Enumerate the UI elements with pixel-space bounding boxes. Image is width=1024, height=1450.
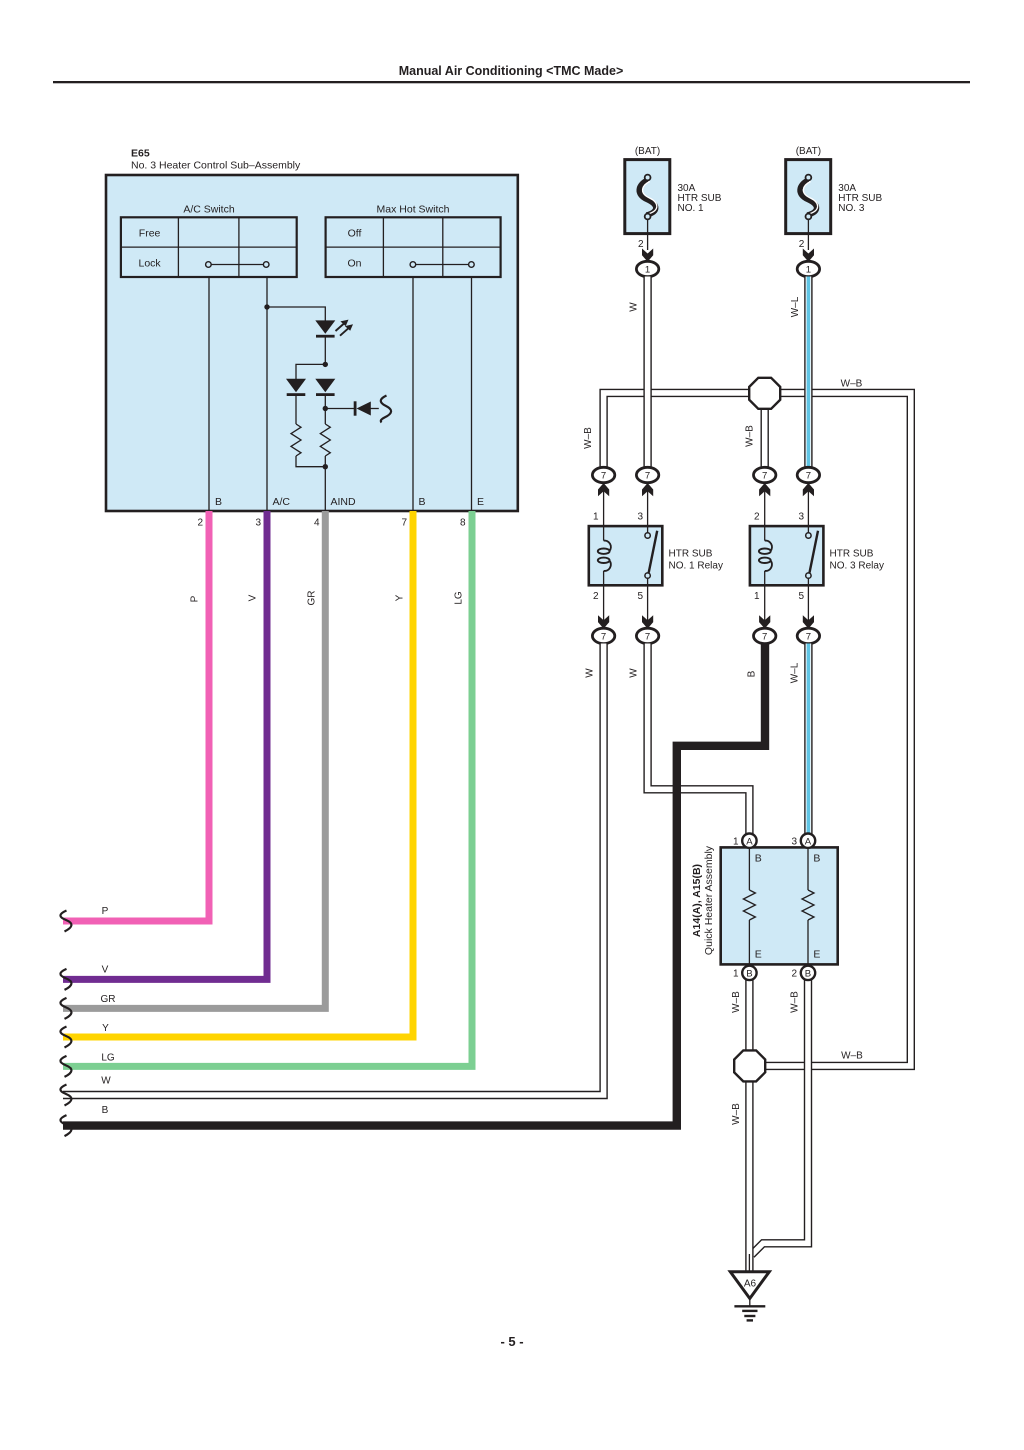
svg-text:2: 2 [638, 239, 644, 250]
svg-text:Quick Heater Assembly: Quick Heater Assembly [703, 845, 715, 955]
ground triangle A6 [730, 1272, 769, 1299]
svg-text:7: 7 [645, 471, 650, 482]
fuse 1 arrow into connector [642, 249, 653, 262]
connector oval 7 (relay1 pin1 top) [592, 467, 614, 482]
merged third wire line [748, 1254, 750, 1271]
svg-text:W–B: W–B [583, 427, 594, 449]
svg-text:1: 1 [645, 265, 650, 276]
svg-text:A14(A), A15(B): A14(A), A15(B) [691, 864, 703, 937]
svg-text:No. 3 Heater Control Sub–Assem: No. 3 Heater Control Sub–Assembly [131, 160, 301, 172]
resistor R1 [291, 424, 301, 456]
diode D4 pointing left [354, 401, 379, 415]
svg-text:1: 1 [733, 837, 739, 848]
wire P (pink) pin2 to left edge [63, 511, 209, 921]
svg-text:- 5 -: - 5 - [500, 1334, 523, 1349]
wire W relay1 pin5 to heater pin 1A [648, 644, 750, 835]
wire W-B heater pin 1B to octagon J2 [745, 980, 753, 1051]
bottom node of LED network [323, 464, 328, 469]
relay3 coil [759, 526, 772, 585]
fuse 2 arrow into connector [803, 249, 814, 262]
svg-text:2: 2 [799, 239, 805, 250]
arrow down into oval (relay1 pin2) + wire [603, 585, 605, 622]
wire from node to LED branch [267, 307, 325, 321]
wire W-B octagon J2 to ground [745, 1081, 753, 1271]
svg-text:4: 4 [314, 518, 320, 529]
svg-text:B: B [746, 969, 752, 980]
connector oval 7 (relay3 pin2 top) [754, 467, 776, 482]
E65 No.3 heater control sub-assembly box [106, 175, 518, 511]
svg-text:LG: LG [454, 591, 465, 605]
wire-break squiggle W [60, 1085, 71, 1106]
svg-text:W–B: W–B [790, 991, 801, 1013]
svg-text:E: E [755, 949, 762, 961]
connector oval 7 (relay1 pin5 bottom) [636, 628, 658, 643]
resistor R2 [320, 424, 330, 456]
diode D2 [286, 379, 306, 396]
svg-text:7: 7 [601, 632, 606, 643]
wire from A/C switch to pin 2 [208, 277, 210, 511]
svg-text:5: 5 [798, 591, 804, 602]
arrow up into oval (relay1 pin1) + wire [603, 489, 605, 526]
wire D2 to resistor R1 [295, 395, 297, 424]
relay HTR SUB NO.1 box [589, 526, 663, 585]
wire-break squiggle LG [60, 1056, 71, 1077]
fuse 2 connector oval 1 [797, 261, 819, 276]
svg-text:B: B [102, 1105, 109, 1116]
svg-text:E: E [477, 496, 484, 508]
wire from A/C switch to pin 3 [266, 277, 268, 511]
wire-break squiggle V [60, 969, 71, 990]
svg-text:W–B: W–B [745, 425, 756, 447]
quick heater assembly box [721, 847, 838, 964]
svg-text:2: 2 [593, 591, 599, 602]
title underline rule [53, 81, 970, 83]
svg-text:NO. 1: NO. 1 [678, 203, 705, 214]
heater element resistor (A14) [743, 847, 755, 964]
relay3 switch [806, 526, 818, 585]
node below LED [323, 362, 328, 367]
fuse HTR SUB NO.3 box [786, 160, 831, 234]
svg-text:A/C Switch: A/C Switch [183, 204, 235, 216]
arrow down into oval (relay3 pin1) + wire [764, 585, 766, 622]
svg-text:W: W [101, 1076, 111, 1087]
W-B wire network: left drop, top run, right drop, bottom run [604, 393, 911, 1066]
svg-text:GR: GR [101, 994, 116, 1005]
fuse 2 pin 2 wire [807, 219, 809, 250]
svg-text:Y: Y [395, 594, 406, 601]
wire from Max Hot switch to pin 8 [471, 277, 473, 511]
svg-text:A6: A6 [744, 1279, 757, 1290]
wire GR (gray) pin4 to left edge [63, 511, 325, 1008]
fuse HTR SUB NO.1 box [625, 160, 670, 234]
svg-text:7: 7 [645, 632, 650, 643]
wire W-B heater pin 2B down and merge [752, 980, 809, 1255]
wire node to pin 4 AIND [324, 456, 326, 511]
branch wire to diode D2 [296, 364, 325, 379]
wire-break squiggle P [60, 911, 71, 932]
svg-text:Y: Y [102, 1023, 109, 1034]
svg-text:Free: Free [139, 228, 161, 240]
svg-text:7: 7 [806, 632, 811, 643]
svg-text:Off: Off [348, 228, 362, 240]
svg-text:W–B: W–B [841, 1051, 863, 1062]
svg-text:2: 2 [754, 512, 760, 523]
wire-break squiggle GR [60, 998, 71, 1019]
junction octagon J1 [749, 378, 780, 409]
svg-text:3: 3 [255, 518, 261, 529]
svg-text:W–L: W–L [790, 296, 801, 317]
wire B relay3 pin1 to bottom left (thick) [63, 644, 765, 1126]
svg-text:Lock: Lock [139, 258, 162, 270]
connector oval 7 (relay1 pin3 top) [636, 467, 658, 482]
LED D1 [315, 320, 353, 338]
svg-text:A: A [805, 836, 812, 847]
svg-text:A/C: A/C [273, 496, 291, 508]
wire Y (yellow) pin7 to left edge [63, 511, 413, 1037]
W-B wire octagon to relay connector [761, 400, 769, 468]
fuse 1 connector oval 1 [636, 261, 658, 276]
diode D3 [315, 379, 335, 396]
svg-text:7: 7 [762, 632, 767, 643]
svg-text:7: 7 [401, 518, 407, 529]
A/C switch table [121, 217, 297, 277]
svg-text:3: 3 [637, 512, 643, 523]
svg-text:3: 3 [792, 837, 798, 848]
arrow up into oval (relay3 pin2) + wire [764, 489, 766, 526]
arrow down into oval (relay3 pin5) + wire [807, 585, 809, 622]
connector oval 7 (relay3 pin3 top) [797, 467, 819, 482]
connector oval 7 (relay3 pin5 bottom) [797, 628, 819, 643]
Max Hot switch on-row contact [410, 262, 474, 268]
svg-text:W–B: W–B [731, 991, 742, 1013]
svg-text:On: On [347, 258, 361, 270]
junction octagon J2 [734, 1050, 765, 1081]
relay1 switch [645, 526, 657, 585]
svg-text:P: P [102, 906, 109, 917]
node at AIND branch [323, 406, 328, 411]
svg-text:W: W [629, 668, 640, 678]
arrow up into oval (relay3 pin3) + wire [807, 489, 809, 526]
svg-text:B: B [419, 496, 426, 508]
svg-text:Manual Air Conditioning <TMC M: Manual Air Conditioning <TMC Made> [399, 64, 624, 78]
heater pin 1B circle [742, 966, 756, 980]
wire node to resistor R2 [324, 409, 326, 425]
wire R1 to bottom node [296, 456, 325, 467]
svg-text:7: 7 [762, 471, 767, 482]
svg-text:NO. 3: NO. 3 [838, 203, 865, 214]
heater element resistor (A15) [802, 847, 814, 964]
svg-text:B: B [747, 670, 758, 677]
wire V (violet) pin3 to left edge [63, 511, 267, 979]
svg-text:B: B [215, 496, 222, 508]
fuse 1 pin 2 wire [647, 219, 649, 250]
svg-text:1: 1 [754, 591, 760, 602]
svg-text:W–L: W–L [790, 662, 801, 683]
heater pin 1A circle [742, 834, 756, 848]
svg-text:7: 7 [601, 471, 606, 482]
svg-text:Max Hot Switch: Max Hot Switch [377, 204, 450, 216]
svg-text:B: B [813, 853, 820, 865]
wire-break squiggle B [60, 1115, 71, 1136]
relay1 coil [598, 526, 611, 585]
svg-text:W: W [585, 668, 596, 678]
svg-text:HTR SUB: HTR SUB [669, 549, 713, 560]
connector oval 7 (relay3 pin1 bottom) [754, 628, 776, 643]
svg-text:LG: LG [101, 1052, 115, 1063]
svg-text:NO. 3 Relay: NO. 3 Relay [830, 561, 884, 572]
ground symbol [734, 1299, 765, 1321]
wire W relay1 pin2 to bottom left [63, 644, 604, 1096]
svg-text:5: 5 [637, 591, 643, 602]
wire D3 to node [324, 395, 326, 408]
svg-text:HTR SUB: HTR SUB [830, 549, 874, 560]
svg-text:7: 7 [806, 471, 811, 482]
svg-text:2: 2 [197, 518, 203, 529]
svg-text:3: 3 [798, 512, 804, 523]
svg-text:B: B [805, 969, 811, 980]
arrow up into oval (relay1 pin3) + wire [647, 489, 649, 526]
fuse HTR SUB NO.1 element [639, 175, 657, 220]
svg-text:GR: GR [307, 591, 318, 606]
wire LG (light green) pin8 to left edge [63, 511, 472, 1066]
svg-text:E65: E65 [131, 148, 150, 160]
heater pin 2B circle [801, 966, 815, 980]
fuse HTR SUB NO.3 element [800, 175, 818, 220]
svg-text:A: A [746, 836, 753, 847]
svg-text:8: 8 [460, 518, 466, 529]
arrow down into oval (relay1 pin5) + wire [647, 585, 649, 622]
svg-text:B: B [755, 853, 762, 865]
svg-text:1: 1 [733, 969, 739, 980]
svg-text:1: 1 [806, 265, 811, 276]
connector oval 7 (relay1 pin2 bottom) [592, 628, 614, 643]
wire W-L fuse2 to relay connector [804, 277, 812, 468]
relay HTR SUB NO.3 box [750, 526, 824, 585]
Max Hot switch table [326, 217, 501, 277]
svg-text:(BAT): (BAT) [635, 146, 660, 157]
wire from Max Hot switch to pin 7 [412, 277, 414, 511]
svg-text:W: W [629, 302, 640, 312]
svg-text:1: 1 [593, 512, 599, 523]
wire W fuse1 to relay connector [643, 277, 651, 468]
wire LED to node [324, 337, 326, 365]
svg-text:W–B: W–B [731, 1103, 742, 1125]
wire node to diode D4 [325, 408, 355, 410]
svg-text:(BAT): (BAT) [796, 146, 821, 157]
heater pin 3A circle [801, 834, 815, 848]
svg-text:W–B: W–B [841, 379, 863, 390]
wire-break squiggle Y [60, 1027, 71, 1048]
svg-text:AIND: AIND [331, 496, 357, 508]
node on A/C wire [264, 304, 269, 309]
A/C switch lock-row contact [206, 262, 269, 268]
svg-text:E: E [813, 949, 820, 961]
svg-text:2: 2 [792, 969, 798, 980]
continuation squiggle after D4 [381, 396, 391, 423]
svg-text:P: P [190, 595, 201, 602]
svg-text:NO. 1 Relay: NO. 1 Relay [669, 561, 723, 572]
wire W-L relay3 pin5 to heater pin 3A [804, 644, 812, 835]
svg-text:V: V [102, 964, 109, 975]
svg-text:V: V [248, 594, 259, 601]
